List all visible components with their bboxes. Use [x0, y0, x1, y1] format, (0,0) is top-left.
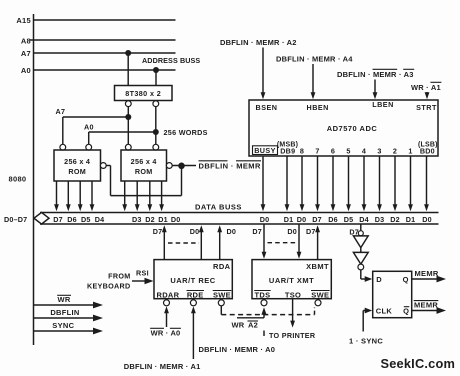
svg-text:D: D [376, 275, 382, 284]
ADC output wire to bus col 5 [346, 156, 351, 211]
buffer U1 8T380 x 2 [115, 86, 173, 101]
svg-text:RDE: RDE [187, 290, 204, 299]
bus bit label D4 (ADC side col 6) [359, 215, 369, 224]
label 8080 [9, 175, 27, 184]
wire 1.SYNC to CLK [363, 308, 372, 332]
FF pin label Q(bar) [403, 307, 409, 316]
wire between inverters [360, 248, 362, 253]
pin label SWE (bar) XMT [311, 290, 330, 299]
bus bit label D1 (ADC side col 9) [406, 215, 416, 224]
FF pin label D [376, 275, 382, 284]
address line A15 [16, 16, 175, 25]
svg-text:4: 4 [362, 147, 366, 156]
bus bit label D6 (ADC side col 4) [328, 215, 338, 224]
wire WR.A2 to TDS (up arrow) [237, 307, 267, 318]
svg-text:D7: D7 [153, 227, 163, 236]
net label DBFLIN . MEMR (active low) [199, 161, 262, 171]
ADC data pin label 8 [300, 147, 304, 156]
ROM1 data pin wire 3 [90, 181, 95, 211]
bus bit label D3 (ADC side col 7) [375, 215, 385, 224]
svg-text:BD0: BD0 [420, 147, 435, 156]
ADC data pin label 5 [346, 147, 350, 156]
wire TSO to printer (down arrow) [290, 299, 295, 328]
svg-text:D2: D2 [390, 215, 400, 224]
svg-text:DBFLIN · MEMR · A2: DBFLIN · MEMR · A2 [220, 38, 297, 47]
svg-text:D0: D0 [171, 215, 181, 224]
label D0 (XMT in) [287, 227, 297, 236]
wire XBMT status to bus D7 (up arrow) [315, 225, 320, 259]
net label MEMR [415, 269, 439, 278]
address line A7 [21, 49, 176, 58]
svg-text:TSO: TSO [285, 290, 301, 299]
net label DBFLIN . MEMR(bar) . A3(bar) [337, 69, 414, 79]
svg-text:D1: D1 [284, 215, 294, 224]
node A0 buffered: wire to both ROM CS2 pins [89, 107, 159, 145]
svg-text:BSEN: BSEN [256, 103, 278, 112]
label A0 (buffered) [84, 122, 94, 131]
svg-text:D4: D4 [95, 215, 105, 224]
bus bit label D5 (ROM side) [81, 215, 91, 224]
ADC output wire to bus col 2 [300, 156, 305, 211]
label D0 (REC) [190, 227, 200, 236]
label D0 (RDA bit) [227, 227, 237, 236]
svg-text:WR · A1: WR · A1 [411, 83, 441, 92]
svg-text:KEYBOARD: KEYBOARD [87, 282, 131, 291]
bus bit label D0 (ADC side col 2) [297, 215, 307, 224]
ADC pin label BUSY (boxed) [253, 146, 278, 155]
ROM2 data pin wire 0 [122, 181, 127, 211]
svg-text:RDAR: RDAR [157, 290, 180, 299]
bus bit label D4 (ROM side) [95, 215, 105, 224]
wire SYNC control arrow [34, 328, 104, 335]
svg-text:D6: D6 [328, 215, 338, 224]
TDS bubble [261, 300, 267, 306]
pin label SWE (bar) REC [213, 290, 232, 299]
svg-text:A8: A8 [21, 37, 31, 46]
ROM2 input bubble A7 [125, 144, 131, 150]
ADC pin label HBEN [307, 103, 329, 112]
FF pin label Q [403, 275, 409, 284]
bus bit label D0 (ADC side col 10) [422, 215, 432, 224]
8T380 output bubble left [125, 101, 131, 107]
svg-text:SWE: SWE [213, 290, 231, 299]
wire MEMR output (Q) [412, 276, 446, 283]
svg-text:A15: A15 [16, 16, 31, 25]
ADC data pin label 7 [315, 147, 319, 156]
ROM1 data pin wire 1 [66, 181, 71, 211]
svg-text:XBMT: XBMT [306, 262, 329, 271]
svg-text:D1: D1 [406, 215, 416, 224]
ADC output wire to bus col 0 [261, 156, 266, 211]
bus bit label D0 (ADC side col 0) [260, 215, 270, 224]
inverter buffer 2 [353, 252, 368, 264]
svg-text:3: 3 [377, 147, 381, 156]
label UAR/T XMT [269, 276, 314, 285]
8080 CPU bus vertical line [33, 14, 35, 345]
svg-text:FROM: FROM [108, 272, 130, 281]
label A7 (buffered) [56, 107, 66, 116]
wire A7 tap to 8T380, junction [125, 50, 131, 86]
ROM2 data pin wire 3 [159, 181, 164, 211]
ADC part number AD7570 ADC [327, 124, 378, 133]
svg-text:D7: D7 [349, 227, 359, 236]
svg-text:RSI: RSI [136, 269, 149, 278]
ROM2 256 x 4 ROM [121, 150, 167, 181]
label UAR/T REC [170, 276, 215, 285]
ROM1 256 x 4 ROM [54, 150, 101, 181]
ROM1 data pin wire 0 [54, 181, 59, 211]
SWE bubble (REC) [218, 300, 224, 306]
dashed wire SWE(REC) to SWE(XMT) [221, 306, 314, 315]
wire BSEN control arrow [261, 48, 266, 100]
pin label RDE (bar) [187, 290, 205, 299]
label RSI [136, 269, 149, 278]
ADC output wire to bus col 1 [285, 156, 290, 211]
bus bit label D6 (ROM side) [67, 215, 77, 224]
ROM2 chip-select bubble [166, 163, 172, 169]
svg-text:1: 1 [408, 147, 412, 156]
svg-text:D5: D5 [81, 215, 91, 224]
label DATA BUSS [195, 203, 242, 212]
svg-text:D3: D3 [132, 215, 142, 224]
svg-text:TDS: TDS [255, 290, 271, 299]
svg-text:ROM: ROM [135, 167, 153, 176]
ADC pin label (LSB) BD0 [418, 141, 438, 155]
svg-text:D1: D1 [158, 215, 168, 224]
inverter input bubble [358, 231, 363, 236]
svg-text:A7: A7 [56, 107, 66, 116]
8T380 output bubble right [153, 101, 159, 107]
ADC output wire to bus col 7 [377, 156, 382, 211]
net label WR A2(bar) [232, 321, 259, 330]
label D0-D7 [4, 215, 27, 224]
ADC output wire to bus col 8 [393, 156, 398, 211]
ADC output wire to bus col 10 [424, 156, 429, 211]
wire inverter to FF D input [361, 270, 372, 282]
svg-text:DATA BUSS: DATA BUSS [195, 203, 242, 212]
bus bit label D7 (ADC side col 3) [312, 215, 322, 224]
svg-text:DBFLIN · MEMR · A4: DBFLIN · MEMR · A4 [276, 55, 353, 64]
label D7 (REC) [153, 227, 163, 236]
pin label TSO [285, 290, 301, 299]
ADC data pin label 3 [377, 147, 381, 156]
svg-text:WR · A0: WR · A0 [151, 329, 181, 338]
svg-text:2: 2 [393, 147, 397, 156]
svg-text:DBFLIN · MEMR · A3: DBFLIN · MEMR · A3 [337, 70, 414, 79]
wire STRT control arrow [425, 92, 430, 99]
svg-text:A0: A0 [21, 66, 31, 75]
inverter output bubble [358, 264, 364, 270]
stray tick below TDS [263, 331, 265, 337]
net label 1 . SYNC [349, 337, 383, 346]
pin label RDAR [157, 290, 180, 299]
net label DBFLIN . MEMR . A1 [124, 362, 201, 371]
wire A0 tap to 8T380, junction [153, 67, 159, 86]
svg-text:D3: D3 [375, 215, 385, 224]
wire RSI input arrow [132, 278, 154, 284]
bus bit label D7 (ROM side) [53, 215, 63, 224]
svg-text:SWE: SWE [311, 290, 329, 299]
wire MEMR(bar) output (Qbar) [412, 307, 446, 314]
svg-text:Q: Q [403, 307, 409, 316]
ADC pin label LBEN [372, 100, 394, 109]
svg-text:5: 5 [346, 147, 350, 156]
svg-text:RDA: RDA [213, 262, 231, 271]
dashed bit-range line (REC) [168, 242, 199, 244]
svg-text:D0: D0 [260, 215, 270, 224]
ROM2 data pin wire 2 [147, 181, 152, 211]
svg-text:256 WORDS: 256 WORDS [164, 128, 208, 137]
ADC data pin label 1 [408, 147, 412, 156]
wire bus D7 to UART XMT (down arrow) [262, 225, 267, 259]
ADC output wire to bus col 3 [315, 156, 320, 211]
svg-text:ROM: ROM [68, 167, 86, 176]
watermark SeekIC.com [381, 356, 456, 371]
pin label TDS (bar) [254, 290, 271, 299]
svg-text:AD7570 ADC: AD7570 ADC [327, 124, 378, 133]
bus bit label D2 (ROM side) [145, 215, 155, 224]
pin label XBMT [306, 262, 329, 271]
ADC data pin label 6 [331, 147, 335, 156]
svg-text:D5: D5 [344, 215, 354, 224]
svg-text:SeekIC.com: SeekIC.com [381, 356, 456, 371]
ADC pin label BSEN [256, 103, 278, 112]
svg-text:SYNC: SYNC [52, 321, 74, 330]
ROM2 data pin wire 1 [135, 181, 140, 211]
net label DBFLIN . MEMR . A4 [276, 55, 353, 64]
ROM1 chip-select bubble [100, 163, 106, 169]
UART U3 UAR/T REC [154, 260, 232, 299]
label DBFLIN [50, 308, 79, 317]
svg-text:8: 8 [300, 147, 304, 156]
ROM1 input bubble A0 [86, 144, 92, 150]
wire bus D7 to inverter [360, 224, 362, 231]
inverter buffer 1 [353, 236, 368, 248]
svg-text:7: 7 [315, 147, 319, 156]
flip-flop U5 D latch [373, 271, 412, 317]
svg-text:A0: A0 [84, 122, 94, 131]
svg-text:D0: D0 [297, 215, 307, 224]
ADC data pin label 2 [393, 147, 397, 156]
net label WR . A1(bar) [411, 82, 441, 92]
svg-text:D4: D4 [359, 215, 369, 224]
svg-text:256 x 4: 256 x 4 [131, 157, 157, 166]
svg-text:DB9: DB9 [280, 147, 295, 156]
svg-text:UAR/T REC: UAR/T REC [170, 276, 215, 285]
label SYNC [52, 321, 74, 330]
wire WR.A0 to RDAR (up arrow) [164, 306, 169, 327]
bus bit label D2 (ADC side col 8) [390, 215, 400, 224]
ADC output wire to bus col 9 [408, 156, 413, 211]
bus bit label D0 (ROM side) [171, 215, 181, 224]
wire WR(bar) control arrow [34, 302, 104, 309]
data bus (two rails) [40, 213, 439, 225]
svg-text:TO PRINTER: TO PRINTER [269, 331, 316, 340]
address line A8 [21, 37, 176, 46]
svg-text:DBFLIN · MEMR · A0: DBFLIN · MEMR · A0 [199, 345, 276, 354]
svg-text:WR: WR [232, 321, 245, 330]
svg-text:MEMR: MEMR [415, 269, 439, 278]
svg-text:Q: Q [403, 275, 409, 284]
bus bit label D3 (ROM side) [132, 215, 142, 224]
bus bit label D1 (ADC side col 1) [284, 215, 294, 224]
svg-text:D7: D7 [306, 227, 316, 236]
svg-text:D0: D0 [287, 227, 297, 236]
FF pin label CLK [376, 307, 393, 316]
wire UART REC D7 to bus (up arrow) [162, 225, 167, 259]
wire HBEN control arrow [311, 64, 316, 99]
net label DBFLIN . MEMR . A0 [199, 345, 276, 354]
svg-text:DBFLIN: DBFLIN [50, 308, 79, 317]
label WR (bar) [57, 295, 71, 304]
svg-text:D7: D7 [312, 215, 322, 224]
svg-text:BUSY: BUSY [254, 146, 276, 155]
svg-text:1 · SYNC: 1 · SYNC [349, 337, 383, 346]
svg-text:6: 6 [331, 147, 335, 156]
wire DBFLIN.MEMR.A0 to RDE (up arrow) [191, 306, 196, 359]
svg-text:A7: A7 [21, 49, 31, 58]
svg-text:DBFLIN · MEMR: DBFLIN · MEMR [199, 162, 261, 171]
label 256 WORDS [164, 128, 208, 137]
label D7 (inverter tap) [349, 227, 359, 236]
svg-text:ADDRESS BUSS: ADDRESS BUSS [142, 56, 200, 65]
wire bus D0 to UART XMT (down arrow) [297, 225, 302, 259]
svg-text:D0: D0 [227, 227, 237, 236]
ADC U2 AD7570 [249, 100, 438, 156]
svg-text:MEMR: MEMR [414, 300, 438, 309]
RDAR bubble [164, 300, 170, 306]
label ADDRESS BUSS [142, 56, 200, 65]
ROM1 input bubble A7 [60, 144, 66, 150]
data bus entry diamond [34, 212, 49, 224]
address line A0 [21, 66, 176, 75]
label D7 (XMT in) [252, 227, 262, 236]
label D7 (XBMT bit) [306, 227, 316, 236]
svg-text:8080: 8080 [9, 175, 27, 184]
ADC output wire to bus col 4 [331, 156, 336, 211]
wire ROM2 CS junction to label [172, 163, 196, 170]
net label WR(bar) . A0(bar) [150, 328, 181, 337]
ADC pin label STRT [416, 103, 437, 112]
svg-text:8T380 x 2: 8T380 x 2 [125, 89, 161, 98]
svg-text:CLK: CLK [376, 307, 393, 316]
wire LBEN control arrow [373, 80, 378, 100]
svg-text:D0–D7: D0–D7 [4, 215, 27, 224]
pin label RDA [213, 262, 231, 271]
ADC data pin label 4 [362, 147, 366, 156]
svg-text:D0: D0 [422, 215, 432, 224]
wire RDA status to bus D0 (up arrow) [217, 225, 222, 259]
ROM1 data pin wire 2 [78, 181, 83, 211]
svg-text:256 x 4: 256 x 4 [64, 157, 90, 166]
net label DBFLIN . MEMR . A2 [220, 38, 297, 47]
net label MEMR (bar) [414, 300, 439, 309]
label TO PRINTER [269, 331, 316, 340]
ADC output wire to bus col 6 [362, 156, 367, 211]
svg-text:D7: D7 [53, 215, 63, 224]
SWE bubble (XMT) [315, 300, 321, 306]
wire DBFLIN control arrow [34, 315, 104, 322]
svg-text:D0: D0 [190, 227, 200, 236]
svg-text:DBFLIN · MEMR · A1: DBFLIN · MEMR · A1 [124, 362, 201, 371]
UART U4 UAR/T XMT [252, 260, 331, 299]
svg-text:A2: A2 [248, 321, 258, 330]
svg-text:D6: D6 [67, 215, 77, 224]
dashed bit-range line (XMT) [268, 242, 297, 244]
svg-text:HBEN: HBEN [307, 103, 329, 112]
svg-text:D7: D7 [252, 227, 262, 236]
wire ROM1 CS to DBFLIN.MEMR net [106, 166, 181, 196]
svg-text:WR: WR [57, 295, 70, 304]
ADC pin label (MSB) DB9 [277, 141, 298, 155]
svg-text:UAR/T XMT: UAR/T XMT [269, 276, 314, 285]
bus bit label D1 (ROM side) [158, 215, 168, 224]
RDE bubble [190, 300, 196, 306]
wire UART REC D0 to bus (up arrow) [199, 225, 204, 259]
bus bit label D5 (ADC side col 5) [344, 215, 354, 224]
label FROM KEYBOARD [87, 272, 131, 291]
svg-text:D2: D2 [145, 215, 155, 224]
svg-text:LBEN: LBEN [372, 100, 394, 109]
svg-text:STRT: STRT [416, 103, 437, 112]
node A7 buffered: wire to both ROM CS1 pins [63, 107, 132, 145]
ROM2 input bubble A0 [153, 144, 159, 150]
